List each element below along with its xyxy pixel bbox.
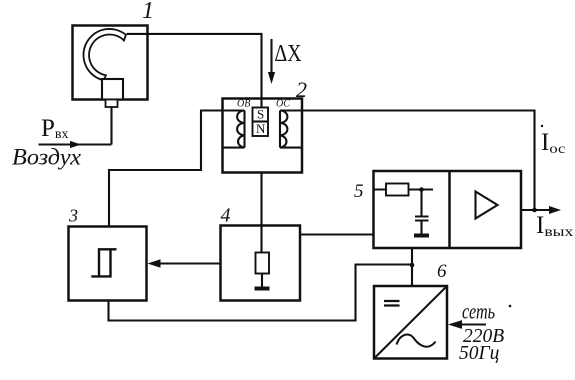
svg-text:Воздух: Воздух — [12, 145, 82, 170]
block 5 box (filter + amplifier) — [374, 171, 522, 248]
hysteresis symbol — [91, 249, 116, 276]
svg-text:Pвх: Pвх — [41, 115, 69, 142]
arrow сеть input — [459, 323, 486, 325]
capacitor — [415, 190, 429, 234]
svg-text:ΔX: ΔX — [275, 41, 302, 67]
divider — [448, 171, 451, 248]
ground under capacitor — [414, 234, 429, 238]
svg-text:Iвых: Iвых — [536, 212, 573, 240]
svg-text:сеть: сеть — [462, 299, 495, 324]
svg-text:50Гц: 50Гц — [459, 343, 500, 364]
arrow ΔX — [270, 39, 272, 73]
filter resistor — [386, 184, 409, 196]
inlet nipple — [106, 100, 118, 108]
bourdon tube — [83, 29, 125, 80]
wire box4 to box5 — [300, 233, 374, 235]
ground under resistor — [261, 274, 263, 288]
arrowhead Pвх — [70, 141, 81, 148]
wire arrow box4 to box3 — [159, 262, 221, 264]
symbol AC sine — [397, 335, 436, 347]
coil ОВ — [223, 111, 245, 148]
block 6 box (power supply) — [374, 286, 447, 359]
wire box5 bottom to box6 — [411, 248, 413, 286]
svg-text:5: 5 — [354, 181, 364, 202]
svg-text:1: 1 — [142, 0, 154, 24]
block 4 box (resistor unit) — [221, 226, 301, 301]
wire bottom rail from box3 — [109, 265, 413, 321]
svg-text:6: 6 — [437, 261, 447, 282]
speck near сеть — [509, 305, 512, 308]
speck near Iос — [541, 125, 543, 127]
junction dot filter — [419, 187, 424, 192]
magnet core — [253, 108, 269, 137]
wire box2 bottom to resistor in box4 — [260, 173, 262, 253]
arrowhead output — [549, 206, 561, 214]
wire Pвх inlet — [39, 107, 112, 145]
block 2 box (magnetoelectric converter) — [223, 99, 303, 173]
svg-text:ОВ: ОВ — [237, 99, 250, 110]
svg-text:ОС: ОС — [276, 99, 290, 110]
block 3 box (relay element) — [69, 227, 147, 301]
junction dot supply — [410, 263, 415, 268]
wire bourdon to magnet — [127, 34, 262, 108]
wire feedback: box2 left to box3 top — [109, 111, 223, 227]
bourdon tube base block — [102, 79, 123, 100]
junction dot output — [532, 208, 537, 213]
svg-text:N: N — [256, 121, 266, 136]
svg-text:2: 2 — [296, 77, 307, 102]
svg-text:S: S — [257, 107, 264, 122]
wire output Iвых — [521, 209, 550, 211]
filter wire — [374, 188, 434, 190]
svg-text:4: 4 — [221, 205, 231, 227]
svg-text:Iос: Iос — [541, 129, 565, 157]
wire Iос: box2 right to vertical — [302, 111, 535, 211]
op-amp triangle — [476, 192, 498, 219]
block 1 box (pressure element) — [73, 26, 148, 100]
coil ОС — [280, 111, 302, 148]
svg-text:3: 3 — [68, 206, 78, 226]
symbol DC — [384, 301, 400, 306]
diagonal — [374, 286, 447, 359]
resistor R — [256, 253, 270, 274]
